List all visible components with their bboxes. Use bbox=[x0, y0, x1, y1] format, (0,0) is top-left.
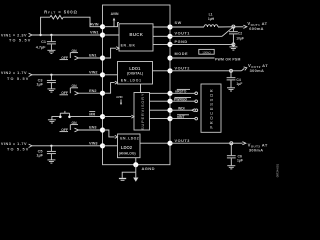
switch MR pushbutton bbox=[52, 111, 71, 120]
wire VOUT1 internal bbox=[153, 35, 170, 37]
node VOUT1 junction bbox=[232, 25, 235, 28]
inductor L1 bbox=[204, 12, 218, 27]
wire EN2 internal bbox=[103, 81, 118, 93]
pin SW bbox=[167, 21, 181, 29]
svg-text:AVIN: AVIN bbox=[90, 22, 99, 26]
svg-text:VIN3: VIN3 bbox=[89, 141, 97, 145]
wire nRSTO to processor bbox=[170, 92, 198, 95]
wire bbox=[63, 17, 102, 27]
node EN2 switch bbox=[60, 84, 79, 95]
capacitor C6 bbox=[227, 143, 243, 165]
svg-text:09724-001: 09724-001 bbox=[275, 163, 279, 177]
svg-text:4.7µF: 4.7µF bbox=[36, 45, 46, 49]
wire LDO1 to supervisory bbox=[140, 84, 142, 93]
ground bbox=[47, 89, 55, 92]
pin VIN1 bbox=[90, 31, 105, 38]
svg-text:VOUT2: VOUT2 bbox=[175, 67, 190, 71]
ground AGND triangle bbox=[133, 172, 138, 182]
wire VOUT1 sense diagonal bbox=[170, 27, 233, 37]
svg-text:L1: L1 bbox=[209, 12, 213, 16]
wire bbox=[103, 23, 120, 27]
op-amp U1a BUCK block bbox=[119, 24, 153, 51]
wire bbox=[32, 34, 103, 36]
wire bbox=[79, 129, 103, 131]
wire PWRGD to processor bbox=[170, 100, 198, 103]
wire PGND internal bbox=[153, 43, 170, 45]
wire PGND external bbox=[170, 43, 233, 45]
wire bbox=[71, 116, 103, 118]
node junction bbox=[50, 74, 52, 76]
pin VOUT3 bbox=[167, 139, 190, 146]
svg-text:10µF: 10µF bbox=[236, 37, 244, 41]
ground bbox=[47, 50, 55, 53]
node VOUT3 output bbox=[242, 142, 267, 153]
wire VOUT3 external bbox=[170, 142, 243, 144]
svg-text:EN1: EN1 bbox=[89, 54, 96, 58]
wire bbox=[79, 92, 103, 94]
node EN3 switch bbox=[60, 121, 79, 132]
wire AGND external bbox=[122, 165, 136, 178]
svg-text:VIN1 = 2.3V: VIN1 = 2.3V bbox=[1, 34, 27, 38]
wire WDI internal bbox=[150, 109, 171, 111]
svg-text:BUCK: BUCK bbox=[129, 32, 143, 37]
svg-text:AGND: AGND bbox=[142, 166, 155, 171]
svg-text:AVIN: AVIN bbox=[111, 12, 119, 16]
pin EN2 bbox=[89, 89, 105, 96]
pin AGND bbox=[133, 162, 155, 171]
wire WDI from processor bbox=[170, 109, 198, 112]
ground bbox=[229, 44, 237, 50]
svg-text:EN_BK: EN_BK bbox=[121, 44, 136, 48]
wire VOUT2 internal bbox=[153, 70, 171, 72]
wire nINT to processor bbox=[170, 117, 198, 120]
pin PWRGD bbox=[167, 97, 191, 103]
svg-text:300mA: 300mA bbox=[249, 148, 264, 153]
svg-text:LDO1: LDO1 bbox=[129, 66, 141, 71]
node VOUT1 output bbox=[233, 21, 267, 31]
svg-text:SUPERVISORY: SUPERVISORY bbox=[141, 93, 145, 130]
svg-text:PWM OR PSM: PWM OR PSM bbox=[215, 57, 241, 61]
svg-text:VIN2: VIN2 bbox=[89, 70, 97, 74]
svg-text:1µF: 1µF bbox=[237, 159, 243, 163]
svg-text:VOUT3: VOUT3 bbox=[175, 139, 190, 143]
wire bbox=[103, 34, 120, 36]
wire SW to L1 bbox=[170, 26, 204, 28]
op-amp U1 : PMIC outline bbox=[103, 5, 171, 165]
pin VOUT1 bbox=[167, 31, 190, 39]
capacitor C3 bbox=[36, 75, 56, 89]
svg-text:1µF: 1µF bbox=[36, 83, 43, 87]
node AVIN internal arrow bbox=[111, 12, 119, 27]
svg-text:1µF: 1µF bbox=[236, 82, 242, 86]
wire VOUT2 external bbox=[170, 70, 242, 72]
node VOUT2 junction bbox=[230, 69, 233, 72]
pin nINT bbox=[167, 115, 189, 121]
svg-text:C2: C2 bbox=[238, 32, 242, 36]
svg-text:EN2: EN2 bbox=[89, 89, 96, 93]
svg-text:100kΩ: 100kΩ bbox=[202, 50, 211, 54]
svg-text:PGND: PGND bbox=[175, 40, 188, 44]
wire bbox=[32, 145, 103, 147]
node VIN2 input bbox=[1, 71, 32, 81]
svg-text:1µF: 1µF bbox=[36, 154, 43, 158]
pin VIN2 bbox=[89, 70, 105, 77]
svg-text:AVIN: AVIN bbox=[116, 95, 122, 99]
wire bbox=[41, 17, 50, 35]
svg-text:TO 5.5V: TO 5.5V bbox=[7, 77, 29, 81]
pin nRSTO bbox=[167, 89, 190, 96]
resistor R1 100k box bbox=[199, 49, 214, 54]
pin VOUT2 bbox=[167, 67, 190, 74]
svg-text:EN_LDO1: EN_LDO1 bbox=[121, 79, 142, 83]
node VOUT3 junction bbox=[230, 142, 233, 145]
svg-text:TO 5.5V: TO 5.5V bbox=[9, 38, 31, 42]
svg-text:VIN1: VIN1 bbox=[90, 31, 98, 35]
node EN1 switch bbox=[60, 49, 79, 60]
pin WDI bbox=[167, 107, 184, 113]
svg-text:SW: SW bbox=[175, 21, 182, 25]
node junction bbox=[39, 34, 41, 36]
capacitor C5 bbox=[36, 146, 56, 160]
pin AVIN bbox=[90, 22, 105, 29]
svg-text:EN_LDO2: EN_LDO2 bbox=[120, 137, 139, 141]
svg-text:VIN2 = 1.7V: VIN2 = 1.7V bbox=[1, 71, 27, 75]
svg-text:RFLT = 500Ω: RFLT = 500Ω bbox=[44, 10, 78, 15]
wire EN1 internal bbox=[103, 47, 120, 58]
svg-text:VIN3 = 1.7V: VIN3 = 1.7V bbox=[1, 142, 27, 146]
svg-text:C1: C1 bbox=[41, 40, 46, 44]
pin VIN3 bbox=[89, 141, 105, 148]
node PGND junction bbox=[232, 43, 235, 46]
wire bbox=[79, 57, 103, 59]
wire VOUT3 internal bbox=[140, 142, 170, 144]
op-amp U1c supervisory block bbox=[134, 93, 150, 131]
pin EN3 bbox=[89, 126, 105, 133]
wire nRSTO internal bbox=[150, 92, 171, 94]
svg-text:EN3: EN3 bbox=[89, 126, 96, 130]
svg-text:PROCESSOR: PROCESSOR bbox=[209, 88, 214, 129]
capacitor C4 bbox=[227, 71, 243, 88]
node VOUT2 output bbox=[242, 63, 269, 73]
op-amp U2 processor block bbox=[201, 84, 221, 132]
capacitor C1 bbox=[36, 35, 56, 50]
wire bbox=[103, 145, 118, 147]
pin EN1 bbox=[89, 54, 105, 61]
node junction bbox=[50, 34, 52, 36]
ground bbox=[227, 88, 235, 91]
wire MR internal bbox=[103, 115, 135, 118]
svg-text:LDO2: LDO2 bbox=[121, 145, 133, 150]
ground bbox=[227, 166, 235, 169]
pin PGND bbox=[167, 40, 187, 47]
svg-text:300mA: 300mA bbox=[250, 68, 265, 73]
wire bbox=[32, 74, 103, 76]
wire bbox=[218, 26, 233, 28]
wire bbox=[103, 74, 118, 76]
capacitor C2 bbox=[229, 27, 244, 45]
ground bbox=[47, 160, 55, 163]
wire AGND internal bbox=[135, 158, 137, 165]
svg-text:MR: MR bbox=[89, 112, 95, 116]
pin MR bbox=[89, 112, 105, 120]
svg-text:(ANALOG): (ANALOG) bbox=[119, 151, 136, 155]
node junction bbox=[50, 145, 52, 147]
svg-text:VOUT1: VOUT1 bbox=[175, 31, 190, 35]
svg-text:MODE: MODE bbox=[175, 52, 189, 56]
svg-text:1µH: 1µH bbox=[208, 17, 215, 21]
svg-text:TO 5.5V: TO 5.5V bbox=[7, 148, 29, 152]
resistor RFLT bbox=[44, 10, 78, 19]
op-amp U1d LDO2 block bbox=[118, 134, 141, 158]
svg-text:600mA: 600mA bbox=[249, 26, 264, 31]
ground bbox=[48, 120, 56, 123]
wire MODE external bbox=[170, 57, 215, 59]
wire SW internal bbox=[153, 26, 170, 28]
node AVIN tap at supervisory bbox=[116, 95, 122, 105]
wire EN3 internal bbox=[103, 130, 118, 138]
wire nINT internal bbox=[150, 118, 171, 120]
pin MODE bbox=[167, 52, 188, 60]
wire PWRGD internal bbox=[150, 100, 171, 102]
node VIN3 input bbox=[1, 142, 32, 152]
op-amp U1b LDO1 block bbox=[118, 62, 153, 85]
ground bbox=[119, 179, 126, 181]
node VIN1 input bbox=[1, 33, 32, 42]
svg-text:(DIGITAL): (DIGITAL) bbox=[127, 72, 143, 76]
